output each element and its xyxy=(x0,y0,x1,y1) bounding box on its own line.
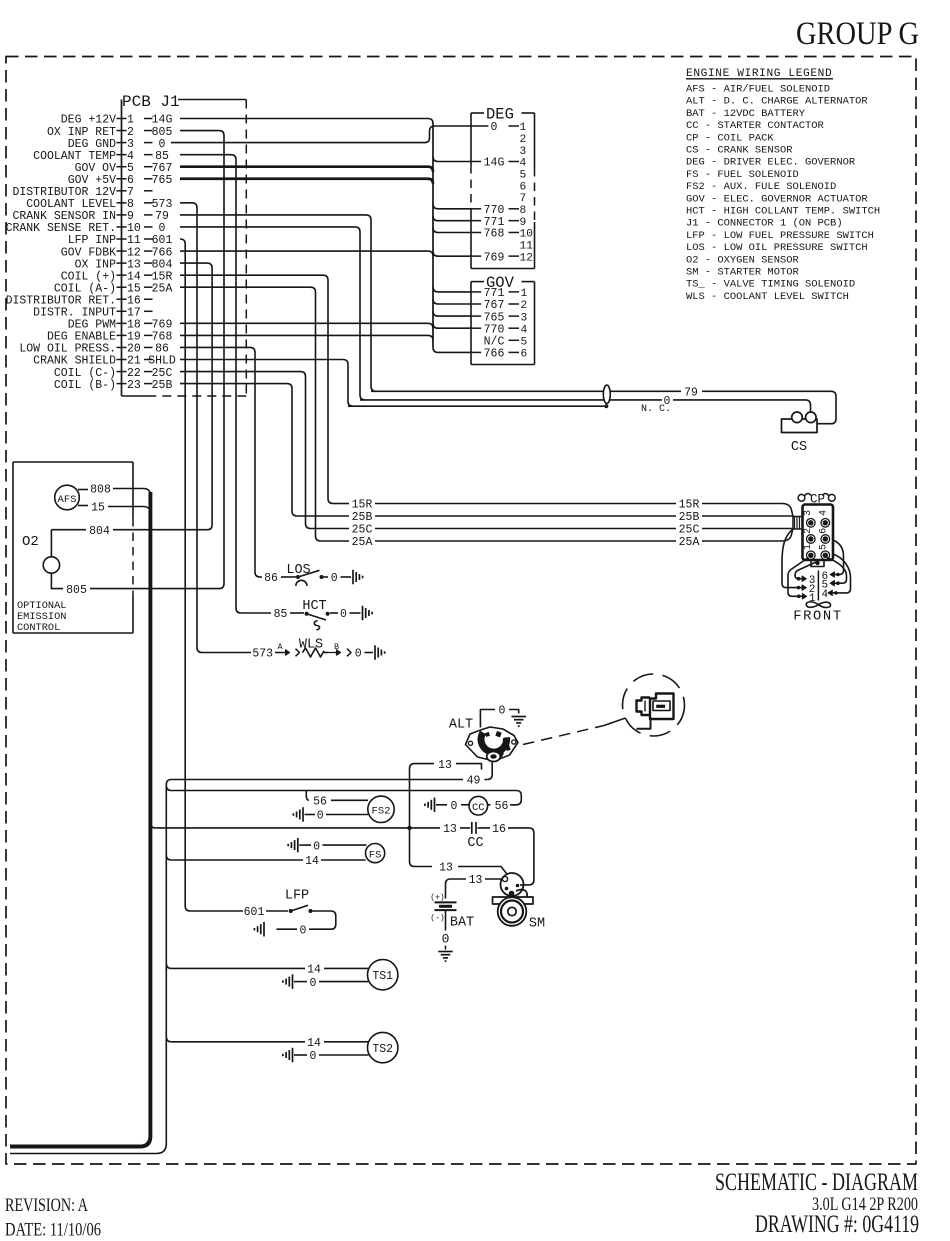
svg-text:CS - CRANK SENSOR: CS - CRANK SENSOR xyxy=(686,145,792,157)
svg-text:49: 49 xyxy=(467,775,481,788)
svg-text:5: 5 xyxy=(521,337,528,349)
svg-text:18: 18 xyxy=(127,319,141,332)
svg-text:16: 16 xyxy=(492,823,506,836)
svg-text:0: 0 xyxy=(442,932,450,947)
svg-text:LFP - LOW FUEL PRESSURE SWITCH: LFP - LOW FUEL PRESSURE SWITCH xyxy=(686,230,874,242)
svg-text:805: 805 xyxy=(66,584,87,597)
svg-text:1: 1 xyxy=(127,114,134,127)
svg-text:SM - STARTER MOTOR: SM - STARTER MOTOR xyxy=(686,267,799,279)
svg-text:766: 766 xyxy=(484,348,505,361)
svg-text:25C: 25C xyxy=(679,524,700,537)
svg-text:0: 0 xyxy=(340,608,347,621)
svg-text:4: 4 xyxy=(521,324,528,336)
svg-text:25B: 25B xyxy=(679,511,700,524)
svg-text:0: 0 xyxy=(313,840,320,853)
svg-text:PCB J1: PCB J1 xyxy=(122,93,180,111)
svg-text:14: 14 xyxy=(307,1037,321,1050)
svg-text:14: 14 xyxy=(127,270,141,283)
svg-text:8: 8 xyxy=(127,198,134,211)
svg-text:DEG PWM: DEG PWM xyxy=(68,319,116,332)
svg-text:2: 2 xyxy=(803,528,814,534)
svg-text:TS_ - VALVE TIMING SOLENOID: TS_ - VALVE TIMING SOLENOID xyxy=(686,279,855,291)
svg-text:11: 11 xyxy=(520,241,534,253)
svg-text:573: 573 xyxy=(152,198,173,211)
svg-text:REVISION: A: REVISION: A xyxy=(5,1195,88,1216)
svg-text:5: 5 xyxy=(520,170,527,182)
svg-text:15R: 15R xyxy=(152,270,173,283)
svg-text:768: 768 xyxy=(152,331,173,344)
svg-text:TS2: TS2 xyxy=(372,1043,393,1056)
svg-text:11: 11 xyxy=(127,234,141,247)
svg-text:79: 79 xyxy=(155,210,169,223)
svg-text:25B: 25B xyxy=(352,511,373,524)
svg-text:14G: 14G xyxy=(484,157,505,170)
svg-text:22: 22 xyxy=(127,367,141,380)
svg-text:1: 1 xyxy=(521,288,528,300)
svg-text:12: 12 xyxy=(520,252,533,264)
svg-text:767: 767 xyxy=(152,162,173,175)
svg-text:15R: 15R xyxy=(679,499,700,512)
svg-text:2: 2 xyxy=(127,126,134,139)
svg-text:0: 0 xyxy=(450,800,457,813)
svg-text:6: 6 xyxy=(127,174,134,187)
svg-text:7: 7 xyxy=(127,186,134,199)
svg-text:25A: 25A xyxy=(352,536,373,549)
svg-text:14: 14 xyxy=(305,855,319,868)
svg-text:COIL (B-): COIL (B-) xyxy=(54,379,116,392)
svg-text:769: 769 xyxy=(152,319,173,332)
svg-text:14: 14 xyxy=(307,964,321,977)
svg-text:HCT - HIGH COLLANT TEMP. SWIT: HCT - HIGH COLLANT TEMP. SWITCH xyxy=(686,206,880,218)
svg-text:9: 9 xyxy=(520,217,527,229)
svg-text:25B: 25B xyxy=(152,379,173,392)
svg-text:13: 13 xyxy=(469,874,483,887)
svg-text:770: 770 xyxy=(484,323,505,336)
svg-text:COOLANT TEMP: COOLANT TEMP xyxy=(33,150,116,163)
svg-text:79: 79 xyxy=(684,387,698,400)
svg-text:4: 4 xyxy=(821,589,828,601)
svg-text:1: 1 xyxy=(520,122,527,134)
svg-text:TS1: TS1 xyxy=(372,970,393,983)
svg-text:3: 3 xyxy=(127,138,134,151)
svg-text:766: 766 xyxy=(152,246,173,259)
svg-text:4: 4 xyxy=(819,510,830,516)
svg-text:601: 601 xyxy=(152,234,173,247)
svg-text:16: 16 xyxy=(127,294,141,307)
svg-text:GOV OV: GOV OV xyxy=(75,162,117,175)
svg-text:5: 5 xyxy=(819,544,830,550)
svg-text:768: 768 xyxy=(484,228,505,241)
svg-text:GOV FDBK: GOV FDBK xyxy=(61,246,116,259)
svg-text:17: 17 xyxy=(127,307,141,320)
svg-text:ALT: ALT xyxy=(449,718,473,733)
svg-text:DISTR. INPUT: DISTR. INPUT xyxy=(33,307,116,320)
svg-text:WLS - COOLANT LEVEL SWITCH: WLS - COOLANT LEVEL SWITCH xyxy=(686,291,849,303)
svg-text:N. C.: N. C. xyxy=(641,404,671,415)
svg-text:(+): (+) xyxy=(430,894,444,903)
svg-text:4: 4 xyxy=(520,158,527,170)
svg-text:SM: SM xyxy=(529,917,545,932)
svg-text:FS: FS xyxy=(369,849,382,861)
svg-text:0: 0 xyxy=(300,924,307,937)
svg-text:CC: CC xyxy=(467,836,483,851)
svg-text:ALT - D. C. CHARGE ALTERNATOR: ALT - D. C. CHARGE ALTERNATOR xyxy=(686,96,868,108)
svg-text:DISTRIBUTOR RET.: DISTRIBUTOR RET. xyxy=(6,294,116,307)
svg-text:DEG GND: DEG GND xyxy=(68,138,116,151)
svg-text:25C: 25C xyxy=(352,524,373,537)
svg-text:SCHEMATIC - DIAGRAM: SCHEMATIC - DIAGRAM xyxy=(715,1169,918,1196)
svg-text:(-): (-) xyxy=(430,914,444,923)
svg-text:85: 85 xyxy=(274,608,288,621)
svg-text:0: 0 xyxy=(499,705,506,718)
svg-text:GROUP G: GROUP G xyxy=(796,16,919,52)
svg-text:15: 15 xyxy=(127,282,141,295)
svg-text:4: 4 xyxy=(127,150,134,163)
svg-text:13: 13 xyxy=(439,862,453,875)
svg-text:CRANK SENSOR IN: CRANK SENSOR IN xyxy=(12,210,116,223)
svg-text:AFS - AIR/FUEL SOLENOID: AFS - AIR/FUEL SOLENOID xyxy=(686,84,830,96)
svg-text:SHLD: SHLD xyxy=(148,355,176,368)
svg-text:0: 0 xyxy=(317,810,324,823)
svg-text:10: 10 xyxy=(127,222,141,235)
svg-text:56: 56 xyxy=(495,800,509,813)
svg-text:765: 765 xyxy=(484,311,505,324)
svg-text:21: 21 xyxy=(127,355,141,368)
svg-text:19: 19 xyxy=(127,331,141,344)
svg-text:13: 13 xyxy=(127,258,141,271)
svg-text:3: 3 xyxy=(521,312,528,324)
svg-text:COIL (C-): COIL (C-) xyxy=(54,367,116,380)
svg-text:BAT - 12VDC BATTERY: BAT - 12VDC BATTERY xyxy=(686,108,806,120)
svg-text:769: 769 xyxy=(484,251,505,264)
svg-text:COIL (A-): COIL (A-) xyxy=(54,282,116,295)
svg-text:HCT: HCT xyxy=(302,599,326,614)
svg-text:FS - FUEL SOLENOID: FS - FUEL SOLENOID xyxy=(686,169,799,181)
svg-text:2: 2 xyxy=(520,134,527,146)
svg-text:CONTROL: CONTROL xyxy=(17,622,60,634)
svg-text:LOS - LOW OIL PRESSURE SWITCH: LOS - LOW OIL PRESSURE SWITCH xyxy=(686,242,868,254)
svg-text:601: 601 xyxy=(244,906,265,919)
svg-text:WLS: WLS xyxy=(299,638,323,653)
svg-text:25C: 25C xyxy=(152,367,173,380)
svg-text:5: 5 xyxy=(127,162,134,175)
svg-text:COIL (+): COIL (+) xyxy=(61,270,116,283)
svg-text:56: 56 xyxy=(313,796,327,809)
svg-text:N/C: N/C xyxy=(484,336,505,349)
svg-text:LFP: LFP xyxy=(285,889,309,904)
svg-text:767: 767 xyxy=(484,299,505,312)
svg-text:6: 6 xyxy=(521,349,528,361)
svg-text:OX INP: OX INP xyxy=(75,258,117,271)
svg-text:8: 8 xyxy=(520,205,527,217)
svg-text:GOV +5V: GOV +5V xyxy=(68,174,116,187)
svg-text:OX INP RET: OX INP RET xyxy=(47,126,116,139)
svg-text:805: 805 xyxy=(152,126,173,139)
svg-text:0: 0 xyxy=(331,572,338,585)
svg-text:25A: 25A xyxy=(679,536,700,549)
svg-text:0: 0 xyxy=(159,138,166,151)
svg-text:O2: O2 xyxy=(22,534,39,550)
svg-text:0: 0 xyxy=(159,222,166,235)
svg-text:COOLANT LEVEL: COOLANT LEVEL xyxy=(26,198,116,211)
svg-text:13: 13 xyxy=(443,823,457,836)
svg-text:86: 86 xyxy=(155,343,169,356)
svg-text:J1 - CONNECTOR 1 (ON PCB): J1 - CONNECTOR 1 (ON PCB) xyxy=(686,218,843,230)
svg-text:23: 23 xyxy=(127,379,141,392)
svg-text:13: 13 xyxy=(438,759,452,772)
svg-text:CRANK SHIELD: CRANK SHIELD xyxy=(33,355,116,368)
svg-text:85: 85 xyxy=(155,150,169,163)
svg-text:0: 0 xyxy=(310,1050,317,1063)
svg-text:0: 0 xyxy=(355,648,362,661)
svg-text:804: 804 xyxy=(152,258,173,271)
svg-text:9: 9 xyxy=(127,210,134,223)
svg-text:FRONT: FRONT xyxy=(793,609,842,624)
svg-text:AFS: AFS xyxy=(58,494,77,506)
svg-text:25A: 25A xyxy=(152,282,173,295)
svg-text:LOW OIL PRESS.: LOW OIL PRESS. xyxy=(19,343,116,356)
svg-text:1: 1 xyxy=(803,544,814,550)
svg-text:DEG - DRIVER ELEC. GOVERNOR: DEG - DRIVER ELEC. GOVERNOR xyxy=(686,157,855,169)
svg-text:15: 15 xyxy=(91,502,105,515)
svg-text:6: 6 xyxy=(819,528,830,534)
svg-text:GOV - ELEC. GOVERNOR ACTUATOR: GOV - ELEC. GOVERNOR ACTUATOR xyxy=(686,193,868,205)
svg-text:808: 808 xyxy=(90,484,111,497)
svg-text:771: 771 xyxy=(484,287,505,300)
svg-text:3: 3 xyxy=(520,146,527,158)
svg-text:CRANK SENSE RET.: CRANK SENSE RET. xyxy=(6,222,116,235)
svg-text:DATE: 11/10/06: DATE: 11/10/06 xyxy=(5,1220,101,1241)
svg-text:DRAWING #: 0G4119: DRAWING #: 0G4119 xyxy=(755,1211,919,1238)
svg-text:15R: 15R xyxy=(352,499,373,512)
svg-text:14G: 14G xyxy=(152,114,173,127)
svg-text:573: 573 xyxy=(252,648,273,661)
svg-text:2: 2 xyxy=(521,300,528,312)
svg-text:3: 3 xyxy=(803,510,814,516)
svg-text:804: 804 xyxy=(89,525,110,538)
svg-text:CP - COIL PACK: CP - COIL PACK xyxy=(686,132,774,144)
svg-text:FS2: FS2 xyxy=(372,806,391,818)
svg-text:DEG +12V: DEG +12V xyxy=(61,114,116,127)
svg-text:765: 765 xyxy=(152,174,173,187)
svg-text:DEG ENABLE: DEG ENABLE xyxy=(47,331,116,344)
svg-text:6: 6 xyxy=(520,181,527,193)
svg-text:20: 20 xyxy=(127,343,141,356)
svg-text:CS: CS xyxy=(791,440,807,455)
svg-text:LFP INP: LFP INP xyxy=(68,234,116,247)
svg-text:O2 - OXYGEN SENSOR: O2 - OXYGEN SENSOR xyxy=(686,254,799,266)
svg-text:10: 10 xyxy=(520,229,534,241)
svg-text:0: 0 xyxy=(491,121,498,134)
svg-text:86: 86 xyxy=(264,572,278,585)
svg-text:DISTRIBUTOR 12V: DISTRIBUTOR 12V xyxy=(12,186,116,199)
svg-text:FS2 - AUX. FULE SOLENOID: FS2 - AUX. FULE SOLENOID xyxy=(686,181,836,193)
svg-text:CC - STARTER CONTACTOR: CC - STARTER CONTACTOR xyxy=(686,120,824,132)
svg-text:BAT: BAT xyxy=(450,916,474,931)
svg-text:12: 12 xyxy=(127,246,141,259)
svg-text:CC: CC xyxy=(472,802,485,814)
svg-text:7: 7 xyxy=(520,193,527,205)
svg-text:A: A xyxy=(277,642,283,652)
svg-text:0: 0 xyxy=(310,977,317,990)
